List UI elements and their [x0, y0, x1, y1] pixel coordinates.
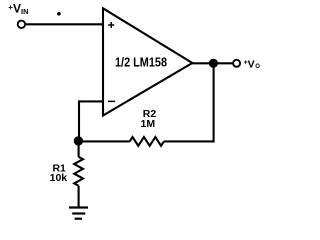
wire: op-amp - input horizontal — [79, 100, 103, 102]
svg-text:1/2 LM158: 1/2 LM158 — [115, 54, 167, 69]
wire: R1 to ground — [78, 186, 80, 208]
input terminal +VIN — [18, 21, 25, 28]
junction dot at output node — [209, 59, 218, 68]
wire: R2 to feedback vertical — [164, 140, 215, 142]
svg-text:V: V — [248, 58, 255, 70]
wire: feedback vertical from output node down — [213, 63, 215, 142]
resistor R2 zigzag — [130, 137, 164, 146]
wire: feedback node down to R1 — [78, 141, 80, 157]
svg-text:10k: 10k — [50, 172, 68, 184]
resistor R1 zigzag — [74, 157, 83, 186]
svg-text:1M: 1M — [141, 118, 156, 130]
asterisk footnote marker — [57, 12, 61, 16]
junction dot feedback node — [74, 136, 83, 145]
ground symbol — [69, 208, 88, 219]
wire: - input down to feedback node — [78, 100, 80, 141]
svg-text:V: V — [13, 2, 21, 16]
op-amp U1 (1/2 LM158) — [103, 8, 192, 115]
label +VO — [244, 58, 261, 70]
label +VIN — [8, 2, 28, 17]
wire: input terminal to op-amp + input — [26, 23, 103, 25]
op-amp + input symbol — [108, 22, 114, 28]
op-amp - input symbol — [108, 100, 115, 102]
output terminal +VO — [233, 60, 240, 67]
svg-text:IN: IN — [21, 7, 29, 16]
wire: feedback node to R2 — [78, 140, 129, 142]
svg-text:O: O — [255, 64, 260, 70]
wire: op-amp output to output terminal — [191, 62, 233, 64]
